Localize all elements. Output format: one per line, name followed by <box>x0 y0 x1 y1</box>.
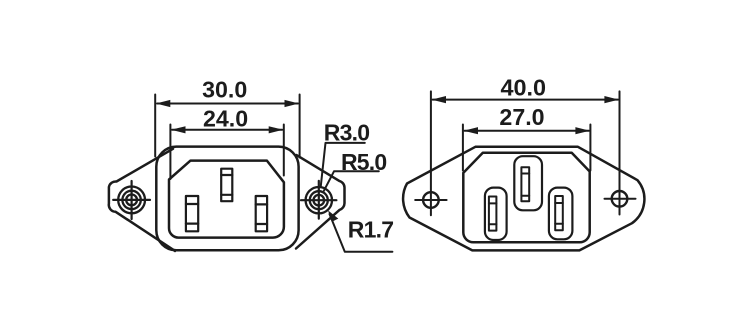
left screw hole crosshair <box>113 181 150 219</box>
slot L (left) <box>485 188 507 240</box>
dim 40.0 arrows <box>432 96 619 103</box>
contact N <box>555 196 563 230</box>
leader R5.0 <box>324 171 379 190</box>
dim 30.0 extension lines <box>155 95 299 158</box>
svg-text:R5.0: R5.0 <box>341 149 386 175</box>
left connector inner opening <box>169 161 284 238</box>
right connector mounting flange <box>403 147 644 251</box>
left mounting ear <box>109 149 175 251</box>
right mounting ear <box>296 155 345 248</box>
right connector body <box>463 153 589 243</box>
pin L (live) <box>186 196 198 231</box>
right hole crosshair <box>605 198 636 200</box>
dim 30.0 arrows <box>156 100 299 107</box>
right flange left screw hole <box>423 192 439 208</box>
dim 27.0 extension lines <box>463 125 591 171</box>
svg-text:30.0: 30.0 <box>202 76 247 102</box>
contact E <box>521 167 529 201</box>
dim 27.0 line <box>465 130 590 132</box>
dim 27.0 arrows <box>464 127 590 134</box>
svg-text:24.0: 24.0 <box>203 105 248 131</box>
svg-text:R3.0: R3.0 <box>324 119 369 145</box>
dim 24.0 arrows <box>171 126 283 133</box>
contact L <box>489 197 497 231</box>
pin N (neutral) <box>256 196 267 231</box>
left screw hole circles <box>118 187 145 214</box>
leader R1.7 <box>330 214 393 252</box>
svg-text:40.0: 40.0 <box>501 75 547 101</box>
slot E (earth, center) <box>514 156 542 210</box>
right screw hole crosshair <box>301 181 336 219</box>
arrowhead R1.7 <box>328 210 338 222</box>
right flange right screw hole <box>612 191 628 207</box>
dim 40.0 extension lines (through hole centers) <box>431 91 620 215</box>
svg-text:27.0: 27.0 <box>499 104 544 130</box>
dim 24.0 extension lines <box>170 125 283 180</box>
left connector body <box>156 147 298 251</box>
svg-text:R1.7: R1.7 <box>348 217 393 243</box>
pin E (earth, center) <box>221 169 232 202</box>
dim 40.0 line <box>433 99 619 101</box>
leader R3.0 <box>321 143 365 186</box>
dim 24.0 line <box>172 129 282 131</box>
dim 30.0 line <box>157 103 298 105</box>
right screw hole circles <box>306 187 332 213</box>
left hole crosshair <box>415 199 446 201</box>
slot N (right) <box>549 188 573 240</box>
